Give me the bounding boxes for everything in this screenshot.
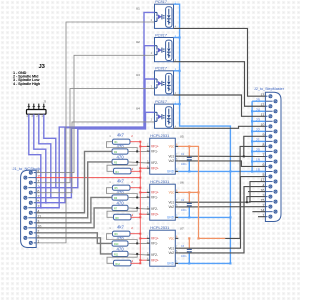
wire red to VF1+ U5 xyxy=(140,145,146,147)
svg-text:Vcc: Vcc xyxy=(169,237,175,241)
junction Vcc U7 xyxy=(197,237,199,239)
wire J1.2 to resistor xyxy=(36,233,112,244)
wire J2.1 stub xyxy=(258,216,265,218)
junction collector bus xyxy=(179,70,181,72)
wire J2 ground bus xyxy=(251,101,265,171)
svg-text:VF2+: VF2+ xyxy=(151,213,159,217)
wire R9 loop xyxy=(107,234,138,244)
svg-text:Vcc: Vcc xyxy=(169,191,175,195)
connector J2_to_StepMaster xyxy=(254,87,285,222)
svg-text:PC817: PC817 xyxy=(155,99,168,104)
junction GND bus U5 xyxy=(229,170,231,172)
svg-text:100n: 100n xyxy=(181,163,187,166)
svg-text:4k7: 4k7 xyxy=(117,133,125,138)
svg-text:4k7: 4k7 xyxy=(117,225,125,230)
wire PC817 pin1 stub xyxy=(174,70,180,72)
capacitor C3 xyxy=(181,238,192,263)
resistor R8 4k7 xyxy=(114,214,132,220)
svg-text:U1: U1 xyxy=(136,7,140,11)
svg-text:4 - Spindle High: 4 - Spindle High xyxy=(13,82,41,86)
svg-text:Vcc: Vcc xyxy=(169,145,175,149)
wire R1 pin2 red xyxy=(130,141,140,143)
junction B/A xyxy=(136,196,138,198)
resistor R2 470 xyxy=(112,149,128,154)
svg-text:PC817: PC817 xyxy=(155,66,168,71)
svg-text:VF2-: VF2- xyxy=(151,207,158,211)
wire U7 Vo1 to J2.5 xyxy=(178,177,265,249)
svg-text:U5: U5 xyxy=(180,135,184,139)
junction C2 GND xyxy=(188,216,190,218)
resistor R7 470 xyxy=(112,205,128,210)
svg-text:470: 470 xyxy=(117,154,125,159)
junction C/D xyxy=(136,161,138,163)
junction red A1 xyxy=(139,187,141,189)
junction Vcc U6 xyxy=(197,191,199,193)
junction J3 tap at 45.8 xyxy=(45,202,47,204)
wire R7 to VF2- xyxy=(128,208,147,209)
junction B/A xyxy=(136,150,138,152)
svg-text:VF1-: VF1- xyxy=(151,150,158,154)
junction red D0 xyxy=(139,170,141,172)
wire U2 cathode to J1 xyxy=(36,55,154,172)
junction red A2 xyxy=(139,233,141,235)
resistor R11 470 xyxy=(112,251,128,256)
svg-text:R11: R11 xyxy=(114,253,119,256)
capacitor C2 xyxy=(181,192,192,217)
svg-text:Vo1: Vo1 xyxy=(169,247,175,251)
wire U6 Vcc stub xyxy=(178,191,198,193)
junction red VF1+ 2 xyxy=(139,237,141,239)
wire red to VF2+ U6 xyxy=(140,213,146,215)
wire J1.12+J3.4 to U1 anode xyxy=(36,12,154,207)
wire U5 GND row xyxy=(178,170,265,172)
wire R5 pin2 red xyxy=(130,187,140,189)
resistor R6 470 xyxy=(112,195,128,200)
optocoupler U1 PC817 xyxy=(155,0,174,28)
U7 pin numbers xyxy=(147,236,178,264)
svg-text:VF2-: VF2- xyxy=(151,161,158,165)
wire Vcc to J2.8 xyxy=(225,146,265,238)
svg-text:470: 470 xyxy=(117,246,125,251)
svg-text:U2: U2 xyxy=(136,40,140,44)
wire red to VF2+ U7 xyxy=(140,259,146,261)
wire red to VF1+ U6 xyxy=(140,191,146,193)
wire red to VF2+ U5 xyxy=(140,167,146,169)
resistor R1 4k7 xyxy=(113,139,131,144)
svg-text:PC817: PC817 xyxy=(155,0,168,4)
J3 legend text xyxy=(13,64,46,86)
svg-text:Vo1: Vo1 xyxy=(169,201,175,205)
wire J2.14 stub xyxy=(252,211,265,213)
junction GND bus U6 xyxy=(229,216,231,218)
wire U1 output to J2 xyxy=(174,28,266,96)
wire R6 to VF1- xyxy=(128,196,147,198)
svg-text:R12: R12 xyxy=(116,263,121,266)
wire R8 pin2 red xyxy=(131,216,141,218)
wire J1.9 to resistor xyxy=(36,238,112,254)
svg-text:VF1+: VF1+ xyxy=(151,145,159,149)
junction C3 Vcc xyxy=(188,237,190,239)
resistor R3 470 xyxy=(112,159,128,164)
resistor R12 4k7 xyxy=(114,260,132,266)
junction red D1 xyxy=(139,216,141,218)
junction red A0 xyxy=(139,141,141,143)
wire PC817 pin1 stub xyxy=(174,103,180,105)
junction red VF2+ 1 xyxy=(139,213,141,215)
svg-text:U6: U6 xyxy=(180,181,184,185)
wire U7 Vo2 to J2.4 xyxy=(178,187,265,253)
junction J3 tap at 50.8 xyxy=(50,197,52,199)
svg-text:VF2+: VF2+ xyxy=(151,167,159,171)
svg-text:GND: GND xyxy=(167,262,175,266)
svg-text:470: 470 xyxy=(117,200,125,205)
wire J1.5+J3.3 to U2 anode xyxy=(36,46,154,203)
junction GND bus U7 xyxy=(229,262,231,264)
junction J3 tap at 40.8 xyxy=(40,207,42,209)
junction C/D xyxy=(136,253,138,255)
wire U3 output to J2 xyxy=(174,95,266,116)
capacitor C1 xyxy=(181,146,192,171)
optocoupler U6 HCPL2531 xyxy=(147,179,179,220)
wire J1.15 red xyxy=(36,177,140,179)
wire J2.16 stub xyxy=(248,191,265,193)
wire R4 loop xyxy=(107,162,137,171)
junction J2.3 on U6 Vo1 row xyxy=(246,201,248,203)
junction red VF1+ 0 xyxy=(139,145,141,147)
wire J3.3 to J1.5 xyxy=(34,114,46,203)
wire U5 Vo2 to J2.6 xyxy=(178,161,265,167)
wire U3 cathode to J1 xyxy=(36,89,154,183)
wire J3.2 to J1.13 xyxy=(39,114,51,198)
svg-text:Vo2: Vo2 xyxy=(169,251,175,255)
wire J1.3 to resistor xyxy=(36,197,112,222)
wire U6 Vo1 to J2.17 xyxy=(178,182,265,203)
svg-text:4k7: 4k7 xyxy=(117,179,125,184)
wire R12 loop xyxy=(107,254,137,263)
wire R2 to VF1- xyxy=(128,150,147,152)
junction red VF2+ 2 xyxy=(139,259,141,261)
svg-text:GND: GND xyxy=(167,216,175,220)
junction J2.9 on Vo1 row xyxy=(243,155,245,157)
wire U5 Vo1 to J2.7 xyxy=(178,155,265,157)
wire red to VF1+ U7 xyxy=(140,237,146,239)
svg-text:VF1+: VF1+ xyxy=(151,237,159,241)
svg-text:470: 470 xyxy=(117,190,125,195)
svg-text:VF1+: VF1+ xyxy=(151,191,159,195)
wire R8 loop xyxy=(107,208,137,217)
junction red J1.15 row xyxy=(139,177,141,179)
wire R4 pin2 red xyxy=(131,170,141,172)
svg-text:HCPL2531: HCPL2531 xyxy=(150,179,169,184)
optocoupler U4 PC817 xyxy=(155,99,174,128)
wire U2 output to J2 xyxy=(174,62,266,107)
wire J3.1 to J1.14 xyxy=(44,114,56,187)
svg-text:100n: 100n xyxy=(181,255,187,258)
svg-text:470: 470 xyxy=(117,144,125,149)
svg-text:PC817: PC817 xyxy=(155,32,168,37)
junction B/A xyxy=(136,242,138,244)
wire J2.9 riser to U5 Vo1 xyxy=(244,136,266,156)
U6 pin numbers xyxy=(147,190,178,218)
U5 pin numbers xyxy=(147,144,178,172)
junction C2 Vcc xyxy=(188,191,190,193)
wire U7 GND row xyxy=(178,262,230,264)
svg-text:J3: J3 xyxy=(39,64,46,70)
wire PC817 collector bus xyxy=(174,4,231,263)
connector J1_to_NCStudio xyxy=(13,166,43,248)
wire red vertical rail xyxy=(139,142,141,264)
wire U1 cathode to J1 xyxy=(36,22,154,243)
wire R5 loop xyxy=(107,188,138,198)
resistor R4 4k7 xyxy=(114,168,132,174)
wire J2.15 stub xyxy=(249,201,265,203)
wire R10 to VF1- xyxy=(128,242,147,244)
resistor R10 470 xyxy=(112,241,128,246)
wire U4 output to J2 xyxy=(174,126,266,128)
svg-text:HCPL2531: HCPL2531 xyxy=(150,133,169,138)
junction collector bus xyxy=(179,103,181,105)
junction red D2 xyxy=(139,262,141,264)
junction C3 GND xyxy=(188,262,190,264)
junction J3 tap at 55.8 xyxy=(55,187,57,189)
svg-text:Vo2: Vo2 xyxy=(169,159,175,163)
optocoupler U5 HCPL2531 xyxy=(147,133,179,174)
junction C1 GND xyxy=(188,170,190,172)
wire Vcc rail orange xyxy=(178,146,225,238)
resistor R5 4k7 xyxy=(113,185,131,190)
svg-text:100n: 100n xyxy=(181,209,187,212)
svg-text:VF2-: VF2- xyxy=(151,253,158,257)
wire J1.14+J3.1 to U4 anode xyxy=(36,112,154,187)
junction red VF2+ 0 xyxy=(139,167,141,169)
junction red VF1+ 1 xyxy=(139,191,141,193)
junction C/D xyxy=(136,207,138,209)
wire PC817 pin1 stub xyxy=(174,37,180,39)
junction C1 Vcc xyxy=(188,145,190,147)
wire U6 Vo2 to J2.2 xyxy=(178,206,265,208)
wire R12 pin2 red xyxy=(131,262,141,264)
svg-text:GND: GND xyxy=(167,170,175,174)
svg-text:VF1-: VF1- xyxy=(151,196,158,200)
svg-text:HCPL2531: HCPL2531 xyxy=(150,225,169,230)
svg-text:Vo1: Vo1 xyxy=(169,155,175,159)
wire R1 loop xyxy=(107,142,138,152)
svg-text:U7: U7 xyxy=(180,227,184,231)
resistor R9 4k7 xyxy=(113,231,131,236)
wire J3.4 to J1.12 xyxy=(29,114,41,208)
wire J1.13+J3.2 to U3 anode xyxy=(36,79,154,198)
wire J1.10 to resistor xyxy=(36,208,112,228)
svg-text:U4: U4 xyxy=(136,107,140,111)
J1 pin numbers xyxy=(37,169,41,243)
wire J1.4 to resistor xyxy=(36,151,112,212)
svg-text:Vo2: Vo2 xyxy=(169,205,175,209)
junction collector bus xyxy=(179,36,181,38)
optocoupler U2 PC817 xyxy=(155,32,174,61)
optocoupler U7 HCPL2531 xyxy=(147,225,179,266)
svg-text:J2_to_StepMaster: J2_to_StepMaster xyxy=(254,87,285,91)
J2 pin numbers xyxy=(256,93,265,217)
svg-text:U3: U3 xyxy=(136,73,140,77)
connector J3 xyxy=(26,100,46,119)
svg-text:470: 470 xyxy=(117,236,125,241)
junction bus pin18 xyxy=(251,170,253,172)
wire R3 to VF2- xyxy=(128,162,147,163)
wire R11 to VF2- xyxy=(128,254,147,255)
svg-text:VF1-: VF1- xyxy=(151,242,158,246)
wire U6 GND row xyxy=(178,216,230,218)
svg-text:VF2+: VF2+ xyxy=(151,259,159,263)
wire R9 pin2 red xyxy=(130,233,140,235)
optocoupler U3 PC817 xyxy=(155,66,174,95)
wire J2.3 riser to U6 Vo1 xyxy=(247,197,266,203)
wire U4 cathode to J1 xyxy=(36,122,154,193)
wire J1.11 to resistor xyxy=(36,162,112,218)
